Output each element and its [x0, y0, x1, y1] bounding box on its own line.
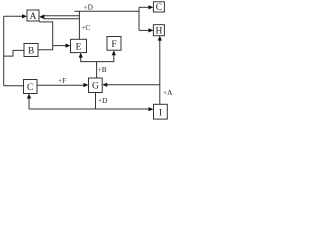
wire: A output right down to E input: [38, 22, 53, 50]
block I: [154, 104, 168, 119]
svg-text:E: E: [76, 42, 82, 52]
wire: +C riser from E top: [78, 11, 80, 39]
wire: right vertical I to H: [159, 40, 161, 105]
wire: +D line to right block: [75, 10, 140, 12]
wire: branch arrow into G right: [102, 83, 160, 87]
svg-text:I: I: [159, 108, 162, 118]
wire: arrow into A left: [4, 14, 27, 18]
wire: double line arrow into A right: [39, 15, 79, 20]
wire: G bottom drop to bus: [95, 93, 97, 110]
arrow into I left: [149, 107, 154, 111]
block C (top right): [153, 2, 164, 13]
block C (left): [24, 80, 38, 94]
arrow into F bottom: [112, 50, 116, 55]
block B: [24, 44, 38, 57]
svg-text:+C: +C: [81, 23, 90, 32]
block E: [71, 39, 87, 52]
wire: arrow into E left: [53, 44, 71, 48]
wire: right tee vertical: [138, 7, 140, 30]
block A: [27, 10, 39, 22]
svg-text:+F: +F: [58, 76, 66, 85]
wire: G top riser and split bus: [81, 57, 97, 78]
svg-text:C: C: [27, 83, 33, 93]
block H: [153, 25, 164, 37]
wire: main left feedback vertical: [3, 16, 5, 86]
svg-text:C: C: [156, 3, 162, 13]
svg-text:B: B: [28, 46, 34, 56]
wire: arrow into H left: [139, 28, 153, 32]
label +A: [163, 88, 173, 97]
block F: [107, 37, 121, 51]
wire: branch to B left: [4, 50, 24, 56]
svg-text:+B: +B: [98, 65, 107, 74]
label +D (top): [84, 3, 93, 12]
svg-text:F: F: [111, 40, 116, 50]
arrow into E bottom: [79, 53, 83, 58]
svg-text:A: A: [30, 12, 37, 22]
svg-text:H: H: [155, 27, 162, 37]
wire: arrow into C (top right): [139, 5, 153, 9]
wire: bottom bus: [29, 108, 150, 110]
label +F: [58, 76, 66, 85]
block G: [89, 78, 103, 93]
label +D (bottom): [98, 96, 107, 105]
arrow into H bottom: [158, 36, 162, 41]
label +B: [98, 65, 107, 74]
wire: riser with arrow into C bottom: [27, 94, 31, 110]
svg-text:G: G: [92, 82, 99, 92]
svg-text:+D: +D: [84, 3, 93, 12]
label +C: [81, 23, 90, 32]
wire: bus to F: [97, 54, 114, 61]
wire: into C left: [4, 85, 24, 87]
svg-text:+D: +D: [98, 96, 107, 105]
wire: C to G with arrow: [37, 83, 89, 87]
svg-text:+A: +A: [163, 88, 173, 97]
